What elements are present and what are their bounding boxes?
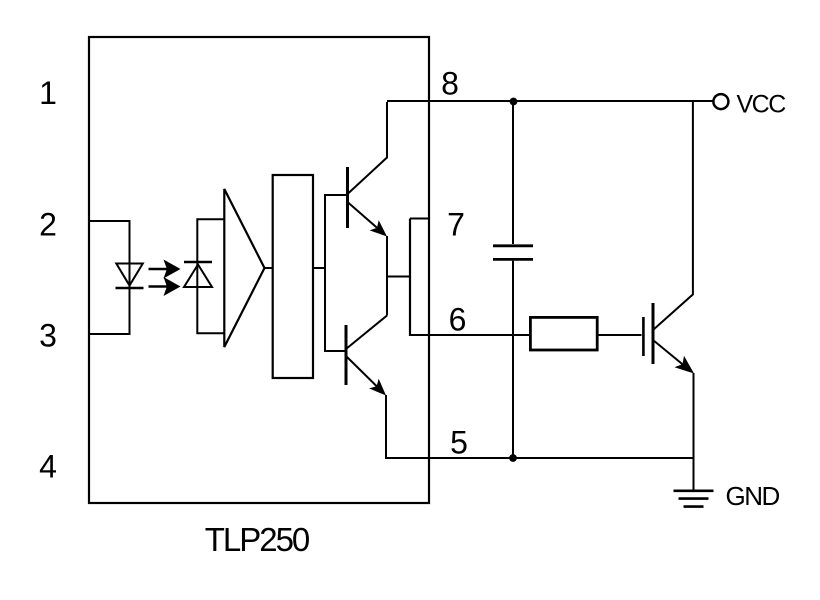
wire base bracket vertical xyxy=(325,195,348,351)
svg-text:3: 3 xyxy=(39,318,57,354)
wire Q2 emitter down to pin5 rail xyxy=(385,395,387,459)
capacitor C1 xyxy=(493,246,533,260)
svg-text:5: 5 xyxy=(450,425,468,461)
node junction dot VCC-capacitor xyxy=(510,98,518,106)
transistor Q3 body bar xyxy=(652,303,655,364)
wire pin 7 stub xyxy=(410,218,429,220)
transistor Q1 (upper NPN) base bar xyxy=(346,167,349,228)
wire pin2 to LED anode loop xyxy=(89,221,130,334)
wire driver to base bracket xyxy=(313,267,325,269)
transistor Q3 collector xyxy=(653,101,693,330)
transistor Q3 emitter with arrow xyxy=(653,340,694,374)
node junction dot cap-gnd rail xyxy=(509,454,517,462)
light emission arrow (upper) xyxy=(149,260,181,279)
wire pin 6 to resistor xyxy=(410,334,530,336)
svg-text:TLP250: TLP250 xyxy=(205,521,310,558)
wire pin 5 / ground rail xyxy=(386,457,694,459)
transistor Q2 (lower NPN) base bar xyxy=(345,325,348,385)
IC U1 TLP250 body outline xyxy=(89,37,429,503)
transistor Q3 gate bar xyxy=(642,317,645,356)
photodiode D2 xyxy=(184,262,212,287)
transistor Q2 emitter with arrow xyxy=(346,356,386,396)
svg-text:1: 1 xyxy=(39,75,57,111)
svg-text:2: 2 xyxy=(39,207,57,243)
wire Q3 emitter to ground xyxy=(693,373,695,491)
wire pin6-pin7 tie bar xyxy=(409,219,411,337)
transistor Q1 emitter with arrow xyxy=(348,202,388,237)
transistor Q2 collector xyxy=(346,316,387,350)
LED D1 (emitter diode) xyxy=(116,264,144,289)
resistor R1 xyxy=(530,317,597,350)
svg-text:VCC: VCC xyxy=(737,91,787,119)
wire resistor to gate xyxy=(597,334,641,336)
transistor Q1 collector xyxy=(348,102,388,194)
wire capacitor bottom lead xyxy=(512,261,514,458)
svg-text:4: 4 xyxy=(39,449,57,485)
wire output junction to pins 6-7 bar xyxy=(386,276,410,278)
svg-text:8: 8 xyxy=(441,66,459,102)
wire photodiode loop xyxy=(197,219,225,333)
ground symbol xyxy=(674,491,714,507)
wire capacitor top lead xyxy=(512,101,514,244)
op-amp/buffer U1a triangle xyxy=(224,189,264,347)
svg-text:6: 6 xyxy=(449,302,467,338)
svg-text:7: 7 xyxy=(447,207,465,243)
driver stage block xyxy=(273,175,313,378)
wire amp output to driver block xyxy=(265,267,273,269)
wire Q1 emitter to Q2 collector xyxy=(386,236,388,316)
terminal VCC open circle xyxy=(713,94,728,109)
wire pin 8 / VCC rail xyxy=(387,100,713,102)
svg-text:GND: GND xyxy=(726,481,780,511)
light emission arrow (lower) xyxy=(149,277,181,296)
